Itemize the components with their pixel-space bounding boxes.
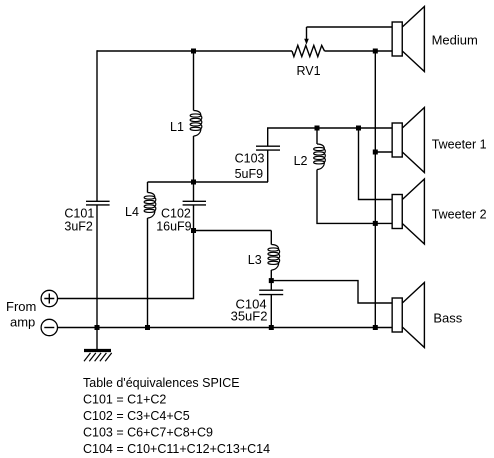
wire right vertical bus — [374, 51, 376, 328]
svg-text:amp: amp — [10, 314, 35, 329]
svg-text:C101 = C1+C2: C101 = C1+C2 — [83, 393, 166, 407]
wire C104 top lead — [270, 281, 272, 291]
svg-text:RV1: RV1 — [297, 64, 321, 78]
wire left vertical upper (to C101) — [96, 50, 98, 201]
capacitor C103 — [256, 146, 280, 150]
svg-text:L2: L2 — [294, 154, 308, 168]
speaker Tweeter 1 — [392, 108, 424, 173]
wire L1 bottom lead — [193, 136, 195, 182]
wire Tweeter 1 bottom branch — [375, 151, 393, 153]
inductor L2 — [314, 144, 326, 170]
wire L2 top lead — [316, 128, 318, 144]
inductor L4 — [144, 193, 156, 219]
junction node (375.3,223.4) — [373, 221, 378, 226]
wire C102 top lead — [193, 182, 195, 201]
wire L2 bottom lead and run to Tweeter 2 — [317, 170, 393, 224]
inductor L1 — [190, 111, 202, 137]
wire C104 bottom lead — [270, 295, 272, 328]
wire minus rail — [58, 327, 393, 329]
svg-text:C102: C102 — [161, 207, 191, 221]
junction node (317,128) — [315, 126, 320, 131]
wire L3 top lead — [270, 231, 272, 245]
junction node (358.5,128) — [356, 126, 361, 131]
label SPICE equivalence table — [83, 376, 270, 456]
svg-text:L4: L4 — [125, 205, 139, 219]
svg-text:C104 = C10+C11+C12+C13+C14: C104 = C10+C11+C12+C13+C14 — [83, 442, 270, 456]
junction node (271.3,280.6) — [269, 278, 274, 283]
svg-text:16uF9: 16uF9 — [156, 220, 191, 234]
speaker Bass — [392, 283, 424, 348]
junction node (193.5,51) — [191, 49, 196, 54]
junction node (193.5,182) — [191, 180, 196, 185]
svg-text:Tweeter 2: Tweeter 2 — [432, 207, 487, 221]
wire from C102 junction down to plus feed — [58, 231, 194, 299]
svg-text:L3: L3 — [248, 253, 262, 267]
capacitor C102 — [183, 201, 206, 205]
wire horizontal node at y=182 — [148, 181, 269, 183]
capacitor C101 — [86, 201, 110, 205]
speaker Tweeter 2 — [392, 179, 424, 244]
wire L1 branch top lead — [193, 50, 195, 110]
ground — [84, 328, 112, 362]
terminal minus from amp — [41, 319, 57, 335]
wire Tweeter 2 top branch — [359, 128, 393, 200]
svg-text:From: From — [6, 299, 36, 314]
svg-text:3uF2: 3uF2 — [64, 220, 93, 234]
wire L3 bottom lead — [270, 270, 272, 281]
svg-text:C103 = C6+C7+C8+C9: C103 = C6+C7+C8+C9 — [83, 425, 213, 439]
wire L4 bottom lead to minus rail — [147, 218, 149, 328]
wire L3 junction to Bass top terminal — [271, 281, 393, 303]
svg-text:5uF9: 5uF9 — [235, 167, 264, 181]
junction node (193.5,230.5) — [191, 228, 196, 233]
svg-text:Medium: Medium — [432, 32, 478, 47]
wire L4 top lead — [147, 182, 149, 193]
svg-text:C103: C103 — [235, 151, 265, 165]
wire C102 bottom lead to junction — [193, 205, 195, 231]
junction node (271.3,327.5) — [269, 325, 274, 330]
junction node (375.3,327.5) — [373, 325, 378, 330]
svg-text:Tweeter 1: Tweeter 1 — [432, 137, 487, 151]
wire top rail right of RV1 — [325, 50, 393, 52]
inductor L3 — [268, 245, 280, 271]
terminal plus from amp — [41, 290, 57, 306]
svg-text:Bass: Bass — [433, 310, 462, 325]
wire C103 top lead — [268, 128, 393, 146]
speaker Medium — [392, 7, 424, 72]
svg-text:Table d'équivalences SPICE: Table d'équivalences SPICE — [83, 376, 240, 390]
junction node (375.3,152) — [373, 150, 378, 155]
wire C102 junction to L3 — [194, 230, 272, 232]
svg-text:C102 = C3+C4+C5: C102 = C3+C4+C5 — [83, 409, 190, 423]
junction node (375.3,51) — [373, 49, 378, 54]
resistor RV1 (potentiometer) — [292, 27, 325, 57]
capacitor C104 — [259, 290, 283, 294]
wire top rail left of RV1 — [97, 50, 292, 52]
svg-text:35uF2: 35uF2 — [231, 309, 268, 324]
wire C103 bottom lead — [267, 150, 269, 182]
wire left vertical lower (C101 to minus rail) — [96, 205, 98, 328]
wire RV1 wiper to Medium top terminal — [307, 26, 393, 28]
junction node (147.5,327.5) — [145, 325, 150, 330]
svg-text:C101: C101 — [64, 207, 94, 221]
svg-text:L1: L1 — [170, 120, 184, 134]
junction node (97,327.5) — [95, 325, 100, 330]
